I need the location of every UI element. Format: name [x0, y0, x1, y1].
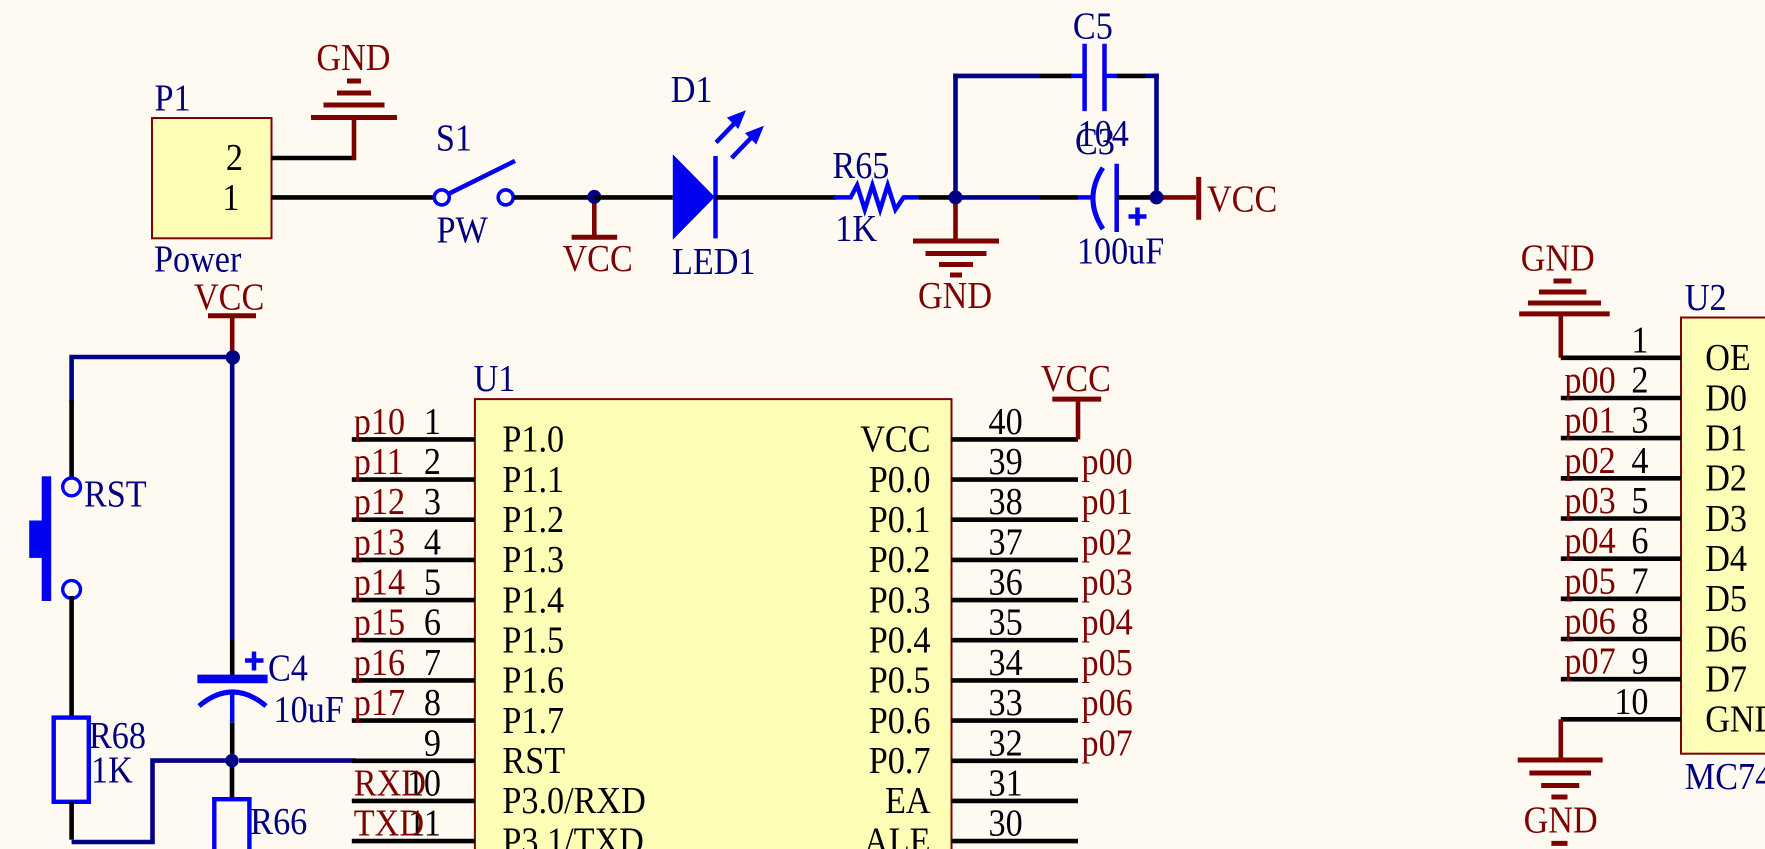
wire R68 to RST net [69, 802, 74, 840]
ground GND (top, near P1) [311, 81, 397, 160]
wire button to R68 [69, 596, 74, 718]
capacitor C3 (polarized) [1078, 164, 1147, 232]
svg-text:p00: p00 [1564, 359, 1615, 401]
svg-text:S1: S1 [436, 117, 472, 159]
svg-text:PW: PW [437, 209, 489, 251]
U2 pin 8 wire [1561, 637, 1681, 642]
U1 pin 35 wire [952, 638, 1079, 643]
wire switch to node [514, 195, 595, 200]
svg-text:10uF: 10uF [274, 688, 344, 730]
svg-text:5: 5 [424, 561, 441, 603]
svg-text:p04: p04 [1564, 520, 1615, 562]
resistor R66 [214, 799, 249, 849]
svg-text:2: 2 [226, 136, 243, 178]
svg-text:p03: p03 [1564, 479, 1615, 521]
U1 pin 4 wire [352, 558, 475, 563]
svg-text:6: 6 [424, 601, 441, 643]
svg-text:VCC: VCC [563, 237, 633, 279]
svg-text:D1: D1 [671, 68, 713, 110]
pushbutton RST [29, 476, 80, 601]
U1 pin 7 wire [352, 678, 475, 683]
svg-text:GND: GND [1521, 237, 1595, 279]
junction node VCC [587, 190, 601, 204]
U1 pin 10 wire [352, 799, 475, 804]
resistor R68 [54, 718, 89, 802]
svg-text:p17: p17 [354, 681, 405, 723]
junction node (C3/VCC) [1150, 190, 1164, 204]
svg-text:p02: p02 [1564, 439, 1615, 481]
svg-text:p03: p03 [1082, 561, 1133, 603]
resistor R65 [834, 185, 918, 209]
svg-text:35: 35 [989, 601, 1023, 643]
svg-text:10: 10 [1614, 680, 1648, 722]
svg-text:p06: p06 [1082, 681, 1133, 723]
svg-text:100uF: 100uF [1077, 230, 1164, 272]
svg-text:p10: p10 [354, 400, 405, 442]
power VCC (right of C3) [1160, 177, 1199, 220]
svg-text:D0: D0 [1705, 377, 1747, 419]
svg-text:D6: D6 [1705, 618, 1747, 660]
U1 pin 34 wire [952, 678, 1079, 683]
wire LED to R65 [715, 195, 836, 200]
U1 pin 8 wire [352, 718, 475, 723]
wire R65 to node [918, 195, 955, 200]
svg-text:VCC: VCC [194, 276, 264, 318]
svg-text:p14: p14 [354, 561, 405, 603]
svg-text:p04: p04 [1082, 601, 1133, 643]
svg-text:P0.7: P0.7 [869, 739, 931, 781]
svg-text:RST: RST [502, 739, 565, 781]
svg-text:p06: p06 [1564, 600, 1615, 642]
junction node (VCC/C4/RST) [226, 350, 240, 364]
wire C5 loop top right [1117, 74, 1145, 79]
svg-text:P1.2: P1.2 [502, 498, 564, 540]
U1 pin 3 wire [352, 517, 475, 522]
wire P1 pin1 to switch [272, 195, 435, 200]
U1 pin 36 wire [952, 598, 1079, 603]
svg-text:D2: D2 [1705, 457, 1747, 499]
svg-text:36: 36 [989, 561, 1023, 603]
svg-text:TXD: TXD [354, 802, 424, 844]
svg-text:R66: R66 [250, 800, 307, 842]
capacitor C4 [197, 652, 267, 723]
svg-text:GND: GND [1705, 698, 1765, 740]
svg-text:p01: p01 [1082, 481, 1133, 523]
svg-text:D3: D3 [1705, 497, 1747, 539]
svg-text:P1.3: P1.3 [502, 539, 564, 581]
power VCC (below switch) [572, 197, 618, 237]
U1 pin 39 wire [952, 477, 1079, 482]
svg-text:C5: C5 [1073, 5, 1113, 47]
svg-text:p02: p02 [1082, 521, 1133, 563]
U1 pin 6 wire [352, 638, 475, 643]
U1 pin 5 wire [352, 598, 475, 603]
svg-text:D1: D1 [1705, 417, 1747, 459]
svg-text:p12: p12 [354, 481, 405, 523]
wire C4 to RST net [230, 723, 235, 754]
svg-text:8: 8 [424, 681, 441, 723]
svg-text:U1: U1 [474, 357, 516, 399]
svg-text:p07: p07 [1082, 722, 1133, 764]
svg-text:3: 3 [424, 481, 441, 523]
IC U1 [475, 399, 952, 849]
svg-text:P0.1: P0.1 [869, 498, 931, 540]
svg-text:1: 1 [1631, 319, 1648, 361]
wire VCC node to button [72, 357, 233, 402]
wire node to LED [594, 195, 673, 200]
U1 pin 37 wire [952, 558, 1079, 563]
U2 pin 1 wire [1561, 355, 1681, 360]
svg-text:C3: C3 [1075, 120, 1115, 162]
svg-text:P1.1: P1.1 [502, 458, 564, 500]
svg-text:p05: p05 [1564, 560, 1615, 602]
ground GND (below R65 node) [913, 202, 999, 275]
svg-text:2: 2 [424, 440, 441, 482]
svg-text:9: 9 [424, 722, 441, 764]
U1 pin 33 wire [952, 718, 1079, 723]
U2 pin 7 wire [1561, 596, 1681, 601]
U2 pin 10 wire [1561, 717, 1681, 722]
svg-text:VCC: VCC [1041, 357, 1111, 399]
ground GND (U2 top) [1519, 281, 1610, 358]
LED D1 [673, 110, 764, 240]
svg-text:D4: D4 [1705, 537, 1747, 579]
U2 pin 3 wire [1561, 436, 1681, 441]
svg-text:p05: p05 [1082, 641, 1133, 683]
svg-text:31: 31 [989, 762, 1023, 804]
wire P1 pin2 to GND [272, 156, 357, 161]
svg-text:RST: RST [84, 473, 147, 515]
svg-text:R65: R65 [832, 144, 889, 186]
svg-text:Power: Power [154, 238, 241, 280]
ground dash (second GND, clipped) [1551, 841, 1567, 846]
svg-text:GND: GND [1524, 799, 1598, 841]
svg-text:P1.7: P1.7 [502, 699, 564, 741]
svg-text:p00: p00 [1082, 440, 1133, 482]
svg-text:U2: U2 [1685, 276, 1727, 318]
U1 pin 11 wire [352, 839, 475, 844]
svg-text:34: 34 [989, 641, 1023, 683]
svg-text:1K: 1K [835, 207, 877, 249]
svg-text:6: 6 [1631, 520, 1648, 562]
U2 pin 4 wire [1561, 476, 1681, 481]
svg-text:1: 1 [424, 400, 441, 442]
svg-text:30: 30 [989, 802, 1023, 844]
wire C5 loop top left [953, 74, 1040, 79]
wire node to C3 [962, 195, 1040, 200]
svg-text:2: 2 [1631, 359, 1648, 401]
ground GND (U2 bottom) [1518, 719, 1603, 797]
svg-text:7: 7 [1631, 560, 1648, 602]
svg-text:37: 37 [989, 521, 1023, 563]
svg-text:ALE: ALE [864, 820, 930, 849]
svg-text:OE: OE [1705, 336, 1751, 378]
U1 pin 32 wire [952, 758, 1079, 763]
svg-text:P0.0: P0.0 [869, 458, 931, 500]
svg-text:4: 4 [424, 521, 441, 563]
U1 pin 9 wire [352, 758, 475, 763]
U2 pin 6 wire [1561, 556, 1681, 561]
U1 pin 30 wire [952, 839, 1079, 844]
power VCC (U1 pin 40) [1052, 399, 1101, 439]
svg-text:D5: D5 [1705, 577, 1747, 619]
svg-text:7: 7 [424, 641, 441, 683]
svg-text:8: 8 [1631, 600, 1648, 642]
wire RST net to R66 [230, 767, 235, 799]
svg-text:1: 1 [222, 176, 239, 218]
U2 pin 2 wire [1561, 396, 1681, 401]
svg-text:P0.4: P0.4 [869, 619, 931, 661]
svg-text:33: 33 [989, 681, 1023, 723]
U1 pin 1 wire [352, 437, 475, 442]
wire C5 loop right vertical [1154, 74, 1159, 198]
svg-text:5: 5 [1631, 479, 1648, 521]
svg-text:p07: p07 [1564, 640, 1615, 682]
svg-text:P1.6: P1.6 [502, 659, 564, 701]
svg-text:4: 4 [1631, 439, 1648, 481]
U1 pin 40 wire [952, 437, 1079, 442]
svg-text:38: 38 [989, 481, 1023, 523]
svg-text:40: 40 [989, 400, 1023, 442]
svg-text:p13: p13 [354, 521, 405, 563]
svg-text:9: 9 [1631, 640, 1648, 682]
svg-text:39: 39 [989, 440, 1023, 482]
svg-text:P0.3: P0.3 [869, 579, 931, 621]
svg-text:P1: P1 [155, 77, 191, 119]
switch S1 [434, 161, 515, 205]
svg-text:RXD: RXD [354, 762, 426, 804]
wire C5 loop left vertical [953, 74, 958, 198]
svg-text:P0.5: P0.5 [869, 659, 931, 701]
U1 pin 31 wire [952, 799, 1079, 804]
U2 pin 9 wire [1561, 677, 1681, 682]
svg-text:p15: p15 [354, 601, 405, 643]
svg-text:P0.2: P0.2 [869, 539, 931, 581]
svg-text:P3.1/TXD: P3.1/TXD [502, 820, 643, 849]
svg-text:P1.0: P1.0 [502, 418, 564, 460]
svg-text:MC74HC573: MC74HC573 [1685, 755, 1765, 797]
connector P1 [152, 118, 272, 238]
capacitor C5 [1071, 44, 1117, 111]
svg-text:p16: p16 [354, 641, 405, 683]
svg-text:D7: D7 [1705, 658, 1747, 700]
svg-text:p01: p01 [1564, 399, 1615, 441]
svg-text:GND: GND [316, 36, 390, 78]
svg-text:1K: 1K [91, 749, 133, 791]
svg-text:LED1: LED1 [672, 240, 756, 282]
svg-text:GND: GND [918, 274, 992, 316]
IC U2 [1681, 318, 1765, 754]
svg-text:P1.4: P1.4 [502, 579, 564, 621]
svg-text:VCC: VCC [1207, 178, 1277, 220]
svg-text:VCC: VCC [860, 418, 930, 460]
svg-text:EA: EA [885, 780, 931, 822]
U2 pin 5 wire [1561, 516, 1681, 521]
wire C3 to node [1117, 195, 1150, 200]
capacitor C4 wire from VCC node [230, 357, 235, 640]
svg-text:P3.0/RXD: P3.0/RXD [502, 780, 645, 822]
svg-text:C4: C4 [268, 647, 308, 689]
svg-text:p11: p11 [354, 440, 404, 482]
wire RST net to U1 pin9 [239, 758, 356, 763]
svg-text:32: 32 [989, 722, 1023, 764]
U1 pin 38 wire [952, 517, 1079, 522]
svg-text:P0.6: P0.6 [869, 699, 931, 741]
junction node RST net [225, 754, 238, 767]
junction node (R65/C5/C3/GND) [949, 190, 963, 204]
svg-text:3: 3 [1631, 399, 1648, 441]
svg-text:P1.5: P1.5 [502, 619, 564, 661]
U1 pin 2 wire [352, 477, 475, 482]
power VCC (RST rail) [208, 316, 256, 357]
